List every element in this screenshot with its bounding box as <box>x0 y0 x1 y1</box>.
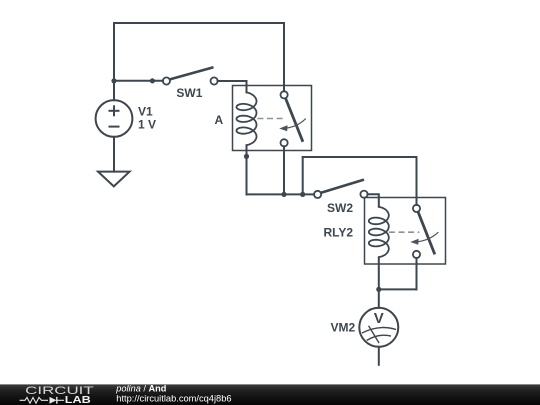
wire V1 bottom pin to ground <box>113 137 115 172</box>
CircuitLab logo resistor zigzag <box>20 397 48 403</box>
footer bar <box>0 384 540 405</box>
wire bottom bus to SW2 left terminal <box>247 193 315 195</box>
svg-text:RLY2: RLY2 <box>324 226 354 240</box>
wire junction to RLY2 switch return <box>379 288 417 290</box>
wire relay A coil bottom to bottom bus <box>246 145 248 194</box>
svg-text:SW2: SW2 <box>327 201 353 215</box>
svg-text:V: V <box>374 310 384 327</box>
junction node bus / relay A switch <box>281 192 286 197</box>
svg-text:A: A <box>215 113 224 127</box>
relay A dashed link <box>257 118 286 120</box>
junction node coil A bottom <box>244 154 249 159</box>
wire SW1 right terminal to relay A coil top <box>218 81 247 92</box>
relay RLY2 dashed link <box>389 231 420 233</box>
voltage source V1 <box>96 100 133 137</box>
switch SW2 <box>314 180 368 198</box>
junction node VM2 / RLY2 <box>376 287 381 292</box>
CircuitLab logo diode <box>50 397 57 404</box>
wire V1 top pin <box>113 81 115 100</box>
relay RLY2 switch <box>413 205 435 258</box>
wire VM2 bottom stub <box>378 347 380 365</box>
relay A coil <box>237 92 257 145</box>
ground <box>98 172 130 187</box>
wire top horizontal <box>114 22 284 24</box>
switch SW1 <box>163 67 218 84</box>
junction node SW1 pin <box>150 78 155 83</box>
junction node bus / riser <box>300 192 305 197</box>
wire riser from bus up to RLY2 feed <box>302 157 304 194</box>
wire left vertical from top to V1 node <box>113 23 115 81</box>
wire right vertical from top to relay A switch <box>283 23 285 91</box>
wire junction to VM2 top <box>378 289 380 307</box>
svg-text:VM2: VM2 <box>331 320 356 334</box>
wire node to SW1 left terminal <box>114 80 163 82</box>
wire RLY2 coil bottom down to junction <box>378 257 380 289</box>
wire SW2 right terminal to RLY2 coil top <box>368 194 379 207</box>
junction node V1/SW1 <box>111 78 116 83</box>
relay A actuate arrow <box>279 119 306 132</box>
wire down to RLY2 switch top <box>416 157 418 205</box>
svg-text:LAB: LAB <box>65 395 91 405</box>
relay RLY2 box <box>365 198 446 265</box>
relay A box <box>233 86 312 151</box>
wire horizontal feed to RLY2 switch <box>303 156 417 158</box>
svg-text:SW1: SW1 <box>176 86 202 100</box>
wire RLY2 switch bottom pin down <box>416 258 418 289</box>
wire relay A switch bottom pin <box>283 146 285 194</box>
svg-text:1 V: 1 V <box>138 118 156 132</box>
svg-text:http://circuitlab.com/cq4j8b6: http://circuitlab.com/cq4j8b6 <box>116 394 231 404</box>
relay A switch <box>281 91 303 146</box>
relay RLY2 actuate arrow <box>410 232 438 245</box>
svg-text:polina / And: polina / And <box>115 383 166 393</box>
svg-text:V1: V1 <box>138 105 153 119</box>
voltmeter VM2 <box>359 308 398 347</box>
relay RLY2 coil <box>369 207 389 257</box>
